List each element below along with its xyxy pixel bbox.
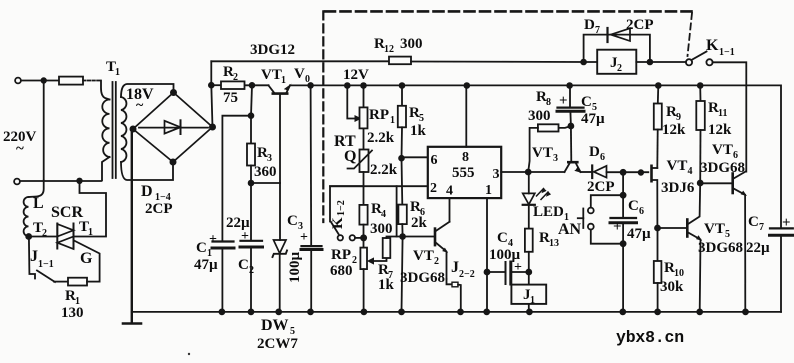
capacitor C1 bbox=[212, 242, 234, 249]
resistor R8 bbox=[538, 124, 559, 131]
potentiometer RP1 bbox=[360, 107, 368, 128]
svg-text:2: 2 bbox=[233, 72, 238, 83]
node R6 trigger cross bbox=[400, 234, 405, 239]
svg-text:C: C bbox=[581, 94, 592, 110]
wire J2 to K1-1 bbox=[636, 61, 686, 63]
node rail bottom dots bbox=[219, 309, 748, 314]
svg-text:13: 13 bbox=[549, 238, 559, 249]
resistor R4 bbox=[359, 205, 367, 225]
svg-text:L: L bbox=[33, 195, 44, 212]
ground bbox=[123, 322, 141, 325]
label J2 bbox=[610, 55, 622, 74]
svg-text:680: 680 bbox=[330, 263, 353, 279]
label 3DG68 VT6 bbox=[700, 160, 745, 176]
svg-text:2CP: 2CP bbox=[587, 179, 615, 195]
label 2.2k RP1 bbox=[367, 130, 395, 146]
wire J1 leads bbox=[528, 272, 530, 312]
node pin6 tap bbox=[399, 156, 404, 161]
label 360 bbox=[254, 164, 277, 180]
label R11 bbox=[708, 100, 727, 119]
svg-text:VT: VT bbox=[667, 158, 688, 174]
svg-text:3: 3 bbox=[553, 153, 558, 164]
label DW5 bbox=[261, 317, 295, 337]
svg-text:K: K bbox=[706, 37, 719, 54]
svg-text:2k: 2k bbox=[411, 215, 428, 231]
node pin1 C4 bbox=[485, 270, 490, 275]
svg-text:VT: VT bbox=[532, 145, 553, 161]
relay coil J2 bbox=[597, 50, 636, 74]
svg-text:1k: 1k bbox=[410, 123, 427, 139]
resistor R10 bbox=[654, 228, 662, 312]
wire RP1 column bbox=[363, 86, 365, 108]
svg-text:130: 130 bbox=[61, 305, 84, 321]
label T1 bbox=[106, 59, 120, 78]
wire C6 column lower bbox=[622, 223, 624, 312]
switch J1-1 blade bbox=[37, 271, 55, 283]
pushbutton AN bbox=[578, 208, 594, 230]
node R2 tap bbox=[250, 83, 255, 88]
wire pin4 to VT2 collector bbox=[449, 198, 451, 222]
svg-text:VT: VT bbox=[712, 142, 733, 158]
svg-text:2.2k: 2.2k bbox=[367, 130, 395, 146]
wire C6 column upper bbox=[622, 172, 624, 218]
label T1 anode bbox=[79, 219, 93, 238]
svg-text:7: 7 bbox=[595, 25, 600, 36]
label pin 8 bbox=[462, 150, 469, 165]
zener DW5 bbox=[273, 240, 288, 257]
svg-text:D: D bbox=[141, 183, 153, 200]
transistor VT4 bbox=[652, 130, 658, 229]
label 22u C2 bbox=[226, 215, 250, 231]
label J2-2 bbox=[451, 259, 475, 280]
node R3 base tap bbox=[249, 181, 254, 186]
node C5 R8 VT3 bbox=[568, 124, 573, 129]
wire AN bottom link bbox=[591, 230, 623, 244]
svg-text:22µ: 22µ bbox=[226, 215, 250, 231]
resistor R2 bbox=[221, 81, 245, 89]
svg-text:2: 2 bbox=[434, 256, 439, 267]
wire RP2 wiper R7 bbox=[368, 258, 387, 264]
svg-text:2.2k: 2.2k bbox=[370, 162, 398, 178]
label C1 bbox=[196, 240, 212, 259]
label R4 bbox=[371, 201, 386, 220]
svg-text:K: K bbox=[330, 217, 346, 229]
svg-text:2: 2 bbox=[352, 255, 357, 266]
svg-text:6: 6 bbox=[639, 206, 644, 217]
label D6 bbox=[589, 144, 605, 163]
wire R3 bottom to C2 bbox=[250, 166, 252, 312]
svg-text:+: + bbox=[613, 219, 622, 235]
bottom ground rail bbox=[132, 311, 781, 313]
svg-text:47µ: 47µ bbox=[581, 111, 605, 127]
svg-text:RP: RP bbox=[331, 247, 351, 263]
wire R1 to gate bbox=[87, 281, 100, 283]
label C3 plus bbox=[300, 230, 308, 245]
LED LED1 bbox=[523, 189, 551, 205]
svg-text:10: 10 bbox=[674, 268, 684, 279]
node AN top bbox=[621, 193, 626, 198]
wire C4 right bbox=[511, 271, 529, 273]
switch K1-1 contacts bbox=[686, 52, 713, 66]
wire wiper tap bbox=[347, 86, 360, 122]
svg-text:3DG68: 3DG68 bbox=[400, 270, 445, 286]
node rail left bbox=[209, 83, 214, 88]
wire J1-1 branch bbox=[29, 237, 35, 279]
svg-text:C: C bbox=[238, 257, 249, 273]
resistor R6 bbox=[398, 205, 406, 225]
diode D7 bbox=[608, 28, 631, 42]
svg-text:1k: 1k bbox=[378, 277, 395, 293]
label C3 bbox=[287, 213, 303, 232]
node: AC input terminal top bbox=[15, 78, 21, 84]
svg-text:1: 1 bbox=[485, 183, 492, 198]
transistor VT5 bbox=[687, 183, 701, 312]
node C6 top tap bbox=[621, 170, 626, 175]
label R10 bbox=[664, 260, 684, 279]
wire C3 column bbox=[310, 85, 313, 312]
label 12V bbox=[343, 67, 369, 83]
svg-text:555: 555 bbox=[452, 165, 475, 181]
label J1-1 bbox=[30, 248, 54, 270]
capacitor C5 bbox=[557, 86, 584, 127]
svg-text:11: 11 bbox=[718, 108, 727, 119]
svg-text:3DG12: 3DG12 bbox=[250, 42, 295, 58]
wire top mains bbox=[22, 80, 60, 82]
label R12 300 bbox=[374, 36, 423, 55]
wire DC plus riser bbox=[211, 61, 212, 127]
svg-text:3DG68: 3DG68 bbox=[698, 240, 743, 256]
node C6 bottom tap bbox=[621, 241, 626, 246]
wire VT3 to D6 bbox=[581, 171, 592, 173]
wire R4 to node bbox=[363, 225, 365, 248]
label K1-2 bbox=[330, 200, 347, 229]
svg-text:6: 6 bbox=[600, 152, 605, 163]
label RP2 bbox=[331, 247, 357, 266]
wire R8 link bbox=[559, 126, 571, 128]
node C4 R13 J1 bbox=[526, 270, 531, 275]
svg-text:+: + bbox=[782, 215, 791, 231]
node R9 rail bbox=[656, 83, 661, 88]
wire LED column bbox=[528, 172, 530, 229]
svg-text:3DJ6: 3DJ6 bbox=[661, 180, 695, 196]
svg-text:1: 1 bbox=[115, 67, 120, 78]
capacitor C7 bbox=[770, 228, 794, 312]
svg-text:300: 300 bbox=[370, 221, 393, 237]
label J1 bbox=[523, 287, 535, 306]
label 3DJ6 bbox=[661, 180, 695, 196]
svg-text:12V: 12V bbox=[343, 67, 369, 83]
capacitor C6 bbox=[610, 218, 637, 223]
fuse FU bbox=[59, 77, 101, 85]
svg-text:47µ: 47µ bbox=[194, 257, 218, 273]
svg-text:6: 6 bbox=[431, 153, 438, 168]
wire gate lead bbox=[74, 241, 100, 282]
label 3DG68 VT2 bbox=[400, 270, 445, 286]
wire R3 column top bbox=[251, 85, 252, 143]
svg-text:5: 5 bbox=[725, 229, 730, 240]
node pin8 rail bbox=[464, 83, 469, 88]
node RP1 wiper tap bbox=[345, 83, 350, 88]
svg-text:2−2: 2−2 bbox=[459, 269, 475, 280]
svg-text:0: 0 bbox=[305, 74, 310, 85]
svg-text:100µ: 100µ bbox=[489, 247, 521, 263]
svg-text:1: 1 bbox=[390, 115, 395, 126]
wire bottom mains bbox=[21, 180, 102, 182]
label 47u C5 bbox=[581, 111, 605, 127]
label 680 bbox=[330, 263, 353, 279]
label SCR bbox=[51, 204, 83, 221]
capacitor C3 bbox=[301, 246, 322, 249]
node VT4 gate bbox=[639, 170, 644, 175]
label 3DG68 VT5 bbox=[698, 240, 743, 256]
label T2 bbox=[33, 220, 47, 239]
wire pin3 bbox=[501, 171, 564, 173]
svg-text:12: 12 bbox=[384, 44, 394, 55]
resistor R1 bbox=[68, 278, 87, 286]
wire vertical link bbox=[43, 81, 45, 181]
svg-text:2: 2 bbox=[430, 181, 437, 196]
node bridge corner right bbox=[210, 124, 215, 129]
label 75 bbox=[223, 90, 238, 106]
resistor R3 bbox=[247, 144, 255, 166]
label 300 R8 bbox=[528, 108, 551, 124]
svg-text:30k: 30k bbox=[660, 279, 684, 295]
svg-text:300: 300 bbox=[528, 108, 551, 124]
label R8 bbox=[536, 89, 551, 108]
label L bbox=[33, 195, 44, 212]
wire K1-1 to VT6 collector bbox=[713, 62, 747, 171]
svg-text:Q: Q bbox=[344, 148, 356, 165]
svg-text:1: 1 bbox=[530, 295, 535, 306]
label C5 plus bbox=[559, 93, 568, 109]
label 1k R5 bbox=[410, 123, 427, 139]
node bridge corner left bbox=[130, 126, 135, 131]
label C4 bbox=[497, 230, 513, 249]
node: AC input terminal bottom bbox=[14, 179, 20, 185]
svg-text:12k: 12k bbox=[662, 122, 686, 138]
wire C1 branch bbox=[222, 116, 251, 312]
svg-text:+: + bbox=[559, 93, 568, 109]
wire D7 bypass bbox=[584, 35, 650, 62]
wire bridge left corner to ground bbox=[131, 129, 133, 323]
resistor R11 bbox=[696, 86, 705, 184]
node VT6 base bbox=[698, 181, 703, 186]
label 555 bbox=[452, 165, 475, 181]
node R4 RP2 bbox=[361, 235, 366, 240]
node D7 left bbox=[581, 60, 586, 65]
capacitor C4 bbox=[506, 262, 511, 284]
label 12k R11 bbox=[708, 122, 732, 138]
label C7 plus bbox=[782, 215, 791, 231]
label V0 bbox=[294, 66, 310, 85]
svg-text:2CP: 2CP bbox=[145, 201, 173, 217]
wire R8 to pin3 bbox=[528, 128, 538, 172]
label 100u C4 bbox=[489, 247, 521, 263]
node D7 right bbox=[648, 60, 653, 65]
node V0 bbox=[308, 83, 313, 88]
switch J2-2 bbox=[447, 279, 461, 312]
svg-text:~: ~ bbox=[16, 141, 24, 157]
svg-text:G: G bbox=[80, 250, 93, 267]
label 3DG12 bbox=[250, 42, 295, 58]
transistor VT3 bbox=[565, 126, 581, 172]
node pin3 LED bbox=[526, 170, 531, 175]
label 18V bbox=[126, 86, 154, 113]
wire 555 pin2 net bbox=[330, 185, 428, 187]
wire VT1 base bbox=[279, 94, 281, 183]
svg-text:+: + bbox=[241, 229, 249, 244]
svg-text:3: 3 bbox=[493, 167, 500, 182]
svg-text:C: C bbox=[196, 240, 207, 256]
wire R12 to J2 bbox=[411, 61, 597, 64]
label C4 plus bbox=[514, 260, 522, 275]
label 2CW7 bbox=[257, 336, 298, 352]
label C5 bbox=[581, 94, 597, 113]
label pin 1 bbox=[485, 183, 492, 198]
svg-text:J: J bbox=[451, 259, 459, 276]
wire R5 to R6 bbox=[401, 127, 404, 204]
wire C4 left bbox=[487, 271, 505, 273]
label R6 bbox=[410, 199, 425, 218]
label VT6 bbox=[712, 142, 738, 161]
svg-text:RP: RP bbox=[369, 107, 389, 123]
label G bbox=[80, 250, 93, 267]
op-amp U1 555 box bbox=[428, 147, 501, 198]
label LED1 bbox=[533, 204, 569, 223]
label RP1 bbox=[369, 107, 395, 126]
svg-text:4: 4 bbox=[688, 166, 693, 177]
label 1k R7 bbox=[378, 277, 395, 293]
wire pin1 column bbox=[486, 198, 488, 312]
svg-text:C: C bbox=[497, 230, 508, 246]
dashed link to K1-1 bbox=[688, 13, 693, 56]
label 30k bbox=[660, 279, 684, 295]
svg-text:LED: LED bbox=[533, 204, 564, 220]
label K1-1 bbox=[706, 37, 735, 58]
svg-text:75: 75 bbox=[223, 90, 238, 106]
svg-text:12k: 12k bbox=[708, 122, 732, 138]
wire R6 to rail bbox=[402, 224, 403, 312]
wire top rail to R12 bbox=[211, 60, 389, 62]
wire T2 to SCR bbox=[29, 236, 58, 238]
node junction bottom-left bbox=[77, 179, 82, 184]
svg-text:VT: VT bbox=[413, 248, 434, 264]
main 12V rail bbox=[211, 85, 781, 228]
svg-text:1−1: 1−1 bbox=[719, 47, 735, 58]
label 2CP D6 bbox=[587, 179, 615, 195]
wire VT5 base link bbox=[658, 227, 687, 229]
transformer T1 core bbox=[113, 82, 116, 178]
dashed box top border bbox=[325, 10, 692, 13]
label 12k R9 bbox=[662, 122, 686, 138]
svg-text:2CP: 2CP bbox=[626, 17, 654, 33]
diode D6 bbox=[592, 166, 606, 179]
transformer T1 primary bbox=[101, 81, 110, 181]
label VT4 bbox=[667, 158, 693, 177]
svg-text:8: 8 bbox=[546, 97, 551, 108]
label C6 bbox=[628, 198, 644, 217]
SCR triac bbox=[57, 224, 73, 250]
label VT3 bbox=[532, 145, 558, 164]
label C6 plus bbox=[613, 219, 622, 235]
label R3 bbox=[257, 145, 272, 164]
label 300 R4 bbox=[370, 221, 393, 237]
svg-text:C: C bbox=[628, 198, 639, 214]
label pin 3 bbox=[493, 167, 500, 182]
resistor R5 bbox=[398, 106, 406, 128]
label 220V bbox=[3, 129, 37, 157]
svg-text:7: 7 bbox=[759, 222, 764, 233]
label RT bbox=[334, 133, 356, 150]
label 2k R6 bbox=[411, 215, 428, 231]
wire pin8 to rail bbox=[465, 86, 467, 147]
wire AN top link bbox=[591, 195, 623, 207]
svg-text:D: D bbox=[589, 144, 600, 160]
svg-text:3DG68: 3DG68 bbox=[700, 160, 745, 176]
resistor R12 bbox=[389, 57, 411, 65]
label R2 bbox=[223, 64, 238, 83]
svg-text:3: 3 bbox=[267, 153, 272, 164]
svg-text:V: V bbox=[294, 66, 305, 82]
label 2.2k RT bbox=[370, 162, 398, 178]
diode inside bridge bbox=[139, 120, 208, 134]
wire to R1 bbox=[54, 281, 68, 283]
wire SCR T1 branch bbox=[74, 181, 107, 237]
bridge rectifier D1-4 outline bbox=[133, 93, 213, 163]
label VT2 bbox=[413, 248, 439, 267]
svg-text:VT: VT bbox=[704, 221, 725, 237]
label 2CP bridge bbox=[145, 201, 173, 217]
node bridge corner bottom bbox=[170, 159, 175, 164]
capacitor C2 bbox=[240, 241, 263, 247]
inductor L bbox=[24, 181, 44, 237]
label pin 6 bbox=[431, 153, 438, 168]
wire R5 column bbox=[401, 86, 403, 106]
resistor R13 bbox=[525, 229, 533, 272]
svg-text:22µ: 22µ bbox=[746, 240, 770, 256]
svg-text:4: 4 bbox=[381, 209, 386, 220]
label R7 bbox=[378, 262, 393, 281]
label ybx8.cn bbox=[616, 328, 684, 347]
transistor VT6 bbox=[733, 172, 746, 312]
wire K1-2 link bbox=[330, 186, 364, 221]
label D1-4 bbox=[141, 183, 171, 203]
svg-text:3: 3 bbox=[298, 221, 303, 232]
svg-text:J: J bbox=[30, 248, 38, 265]
node T2 junction bbox=[26, 234, 31, 239]
wire base link bbox=[251, 182, 280, 184]
transistor VT1 bbox=[269, 85, 291, 93]
potentiometer RP2 bbox=[360, 248, 367, 270]
wire VT6 base link bbox=[700, 182, 732, 184]
node bridge corner top bbox=[171, 90, 176, 95]
svg-text:2: 2 bbox=[249, 265, 254, 276]
svg-text:C: C bbox=[287, 213, 298, 229]
label 22u C7 bbox=[746, 240, 770, 256]
label 2CP D7 bbox=[626, 17, 654, 33]
svg-text:+: + bbox=[300, 230, 308, 245]
wire RP1 to RT bbox=[363, 128, 365, 149]
label C7 bbox=[748, 214, 764, 233]
node R11 rail bbox=[698, 83, 703, 88]
node VT4 source VT5 base bbox=[655, 226, 660, 231]
label AN bbox=[558, 221, 582, 238]
label 47u C6 bbox=[627, 226, 651, 242]
node C5 rail bbox=[567, 83, 572, 88]
wire pin6 bbox=[402, 156, 428, 158]
label 100u C3 bbox=[287, 252, 303, 284]
label Q bbox=[344, 148, 356, 165]
